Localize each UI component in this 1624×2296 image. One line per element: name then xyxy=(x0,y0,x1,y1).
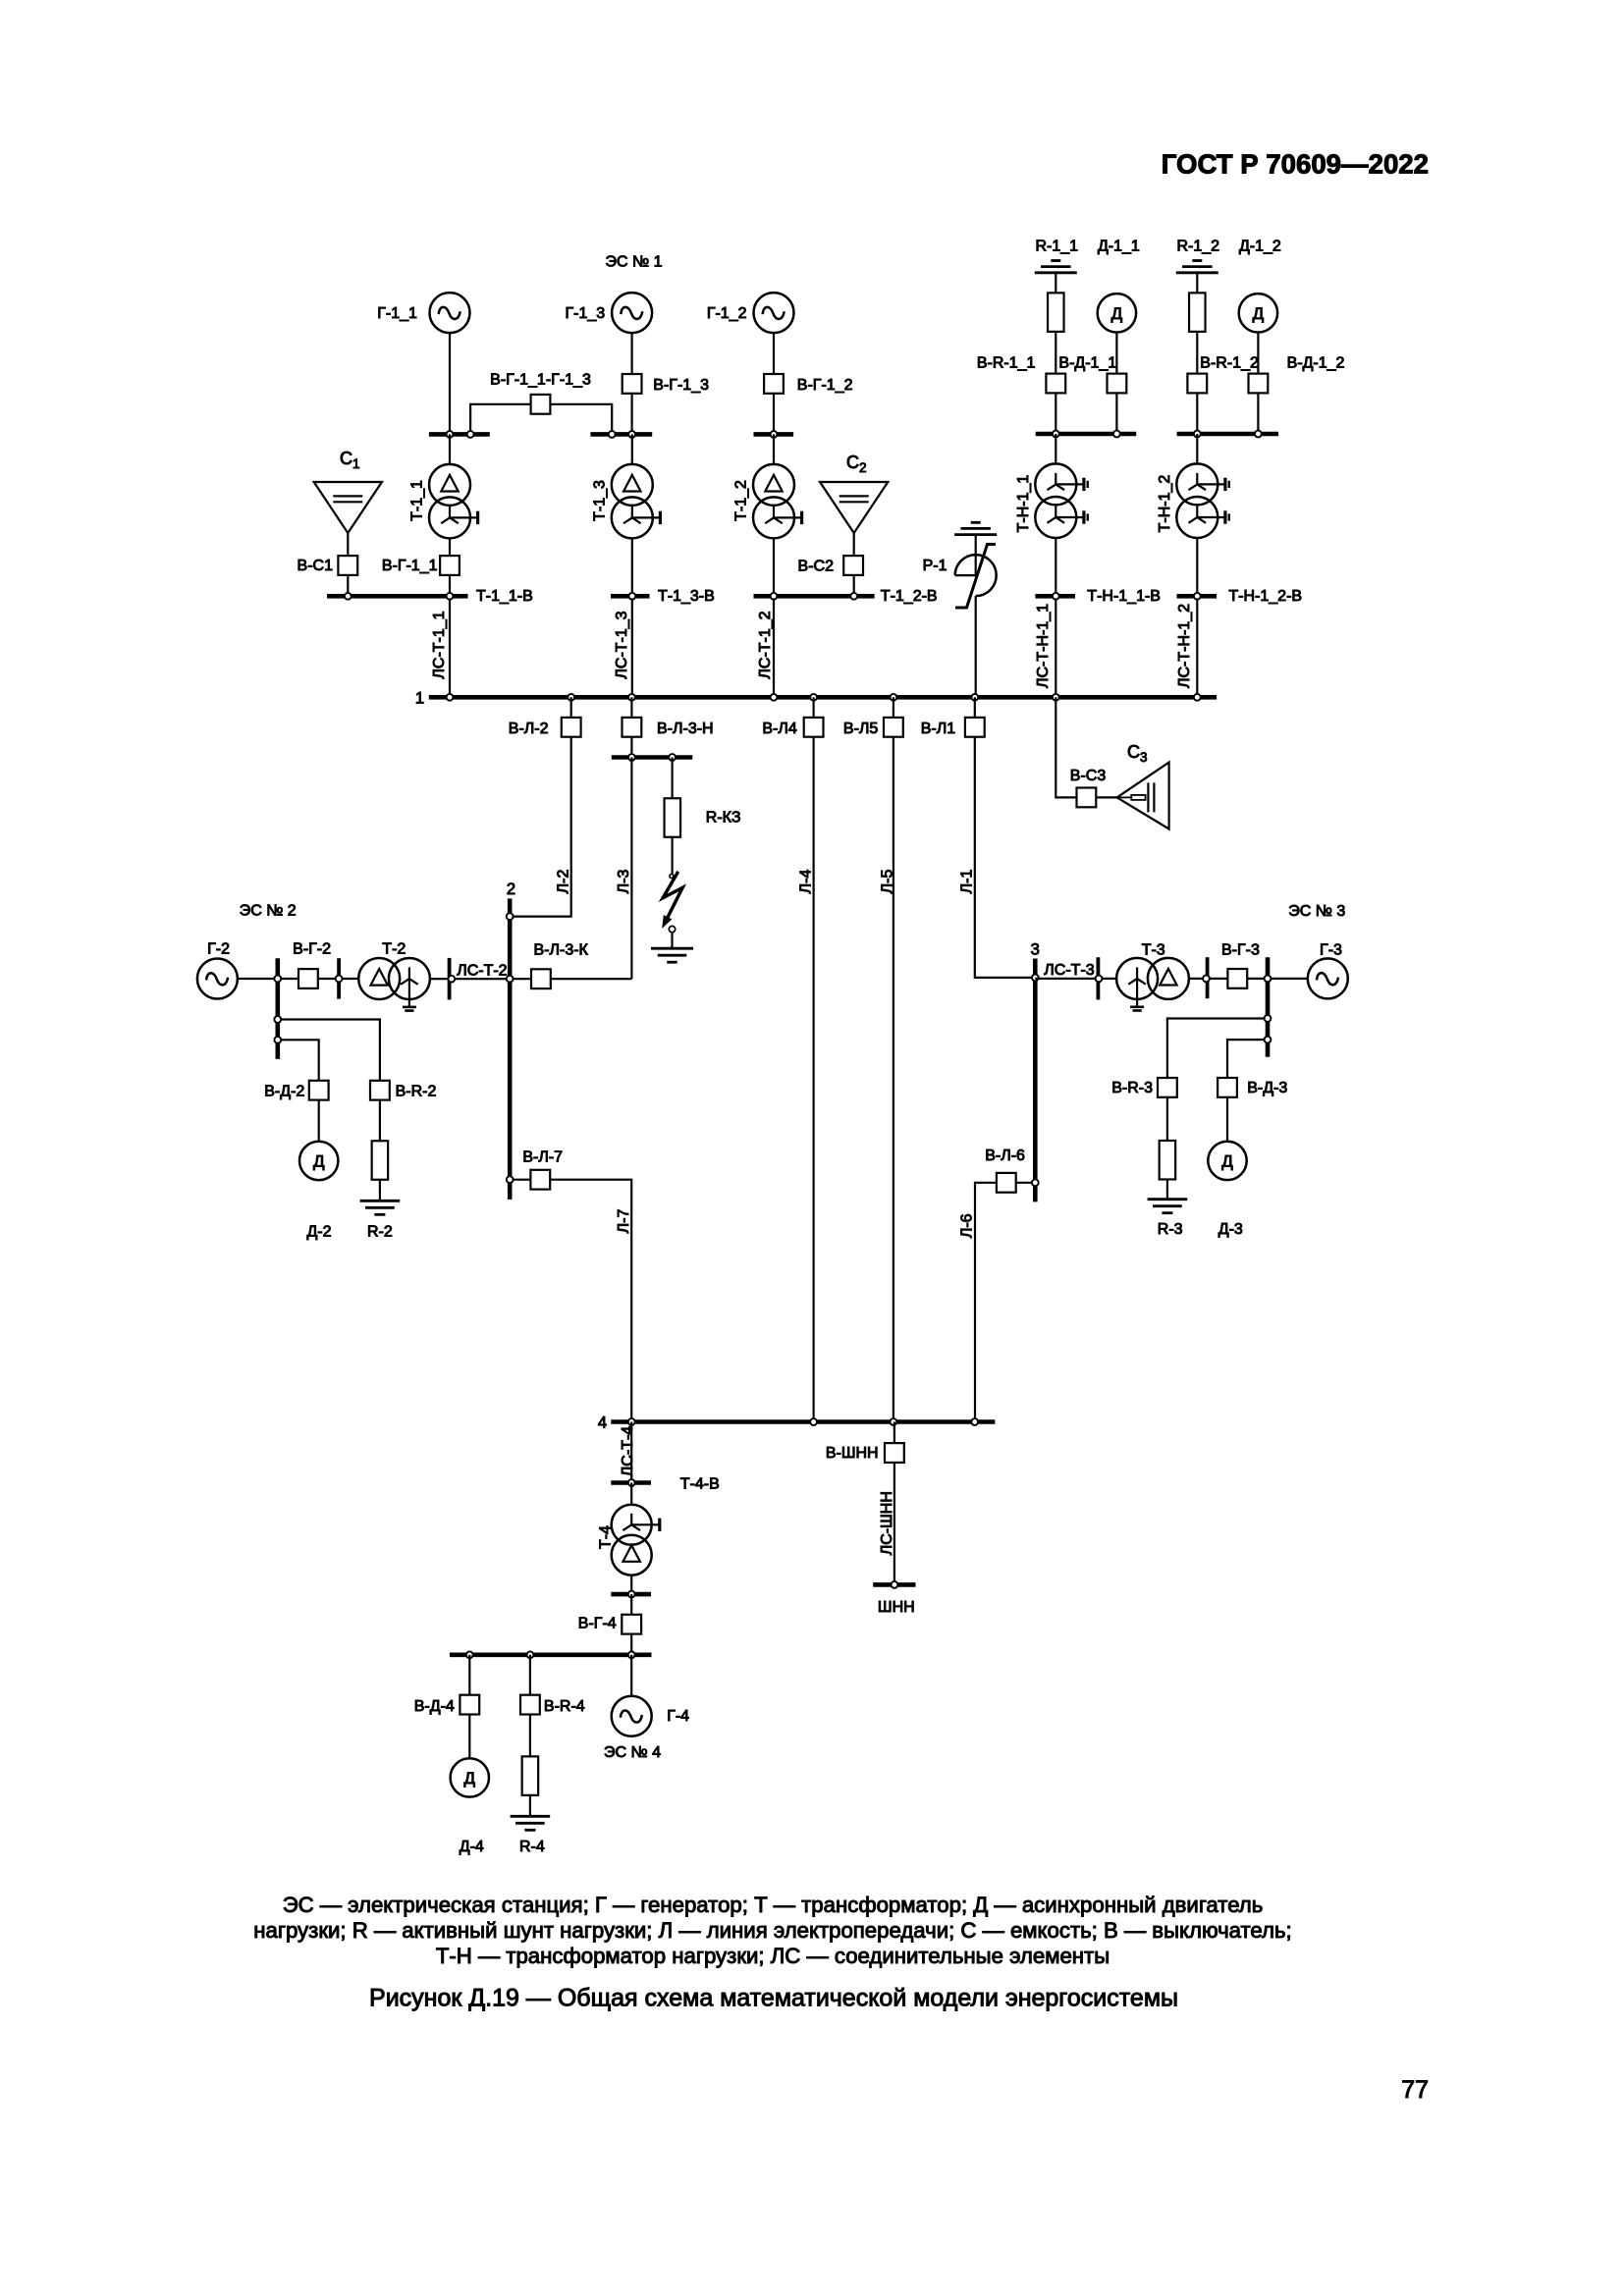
node Т-Н-1_2-В xyxy=(1194,593,1201,600)
ground of R-2 xyxy=(360,1200,401,1202)
svg-text:ЭС № 3: ЭС № 3 xyxy=(1288,903,1345,920)
node bus 1 xyxy=(971,694,978,701)
transformer Т-Н-1_1 xyxy=(1035,463,1076,505)
svg-text:В-Д-2: В-Д-2 xyxy=(264,1084,304,1100)
svg-text:Д-4: Д-4 xyxy=(460,1839,484,1855)
busbar under Г-1_1 xyxy=(429,432,490,437)
breaker В-С2 xyxy=(843,556,863,575)
svg-text:Г-1_2: Г-1_2 xyxy=(707,305,747,322)
wire Т-3 to Г-3 xyxy=(1189,978,1308,980)
breaker В-R-3 xyxy=(1158,1078,1177,1097)
svg-text:ЛС-Т-Н-1_1: ЛС-Т-Н-1_1 xyxy=(1035,604,1052,688)
wire В-R-2 to R-2 xyxy=(379,1100,381,1201)
wire R-КЗ branch xyxy=(671,758,673,875)
svg-text:Д-1_1: Д-1_1 xyxy=(1098,239,1140,255)
wire transformer Т-1_3 down xyxy=(631,538,633,594)
node Г-1_1 bus xyxy=(447,431,454,438)
wire ЛС-Т-4 xyxy=(630,1422,632,1483)
wire ЛС-Т-1_3 xyxy=(631,599,633,695)
breaker В-R-1_2 xyxy=(1187,374,1207,394)
svg-text:нагрузки; R — активный шунт на: нагрузки; R — активный шунт нагрузки; Л … xyxy=(253,1918,1291,1943)
svg-text:Т-Н-1_1: Т-Н-1_1 xyxy=(1015,475,1032,533)
wire transformer Т-1_2 down xyxy=(773,538,775,594)
resistor R-3 xyxy=(1160,1141,1176,1180)
lightning fault arrow xyxy=(663,872,682,920)
node bus 1 xyxy=(1194,694,1201,701)
svg-text:В-R-1_2: В-R-1_2 xyxy=(1200,355,1259,372)
svg-text:Л-5: Л-5 xyxy=(880,870,896,894)
svg-text:В-Л-7: В-Л-7 xyxy=(522,1148,563,1165)
wire ЛС-Т-2 xyxy=(430,978,632,980)
svg-text:Л-2: Л-2 xyxy=(556,870,572,894)
wire C2 to В-С2 xyxy=(853,533,855,594)
node ШНН xyxy=(892,1581,898,1588)
breaker В-Л-6 xyxy=(997,1173,1016,1193)
breaker В-Д-2 xyxy=(309,1081,329,1100)
node В-Л-7 on bus 2 xyxy=(507,1176,514,1183)
motor Д-1_1 xyxy=(1098,294,1136,332)
motor Д-4 xyxy=(451,1758,489,1796)
svg-text:В-Г-3: В-Г-3 xyxy=(1221,941,1260,958)
svg-text:В-R-4: В-R-4 xyxy=(544,1698,585,1715)
breaker В-ШНН xyxy=(885,1443,904,1463)
generator Г-1_2 xyxy=(754,293,794,333)
transformer Т-4 xyxy=(612,1505,652,1545)
svg-text:Д: Д xyxy=(1111,304,1123,323)
node load bus right xyxy=(1113,431,1120,438)
tie wire Г-1_1 to Г-1_3 xyxy=(470,404,612,432)
capacitor C1 xyxy=(314,482,382,533)
wire to В-R-3 xyxy=(1167,1019,1268,1078)
transformer Т-1_1 xyxy=(429,464,470,506)
svg-text:ЛС-Т-Н-1_2: ЛС-Т-Н-1_2 xyxy=(1176,604,1193,688)
wire Т-Н-1_1 down xyxy=(1055,538,1056,594)
terminal tick В-Г-3 left xyxy=(1206,957,1210,998)
wire to В-Д-4 xyxy=(468,1655,470,1694)
wire В-Д-3 to Д-3 xyxy=(1226,1097,1228,1141)
terminal tick ЛС-Т-3 xyxy=(1097,957,1101,999)
node Г-2 line xyxy=(274,976,281,983)
resistor R-1_2 xyxy=(1189,293,1206,332)
breaker В-Г-1_3 xyxy=(623,374,642,394)
svg-text:Д: Д xyxy=(1221,1152,1233,1171)
node branch R-3 xyxy=(1265,1015,1272,1022)
wire ЛС-Т-1_1 xyxy=(449,599,451,695)
svg-text:Т-Н — трансформатор нагрузки;: Т-Н — трансформатор нагрузки; ЛС — соеди… xyxy=(436,1944,1110,1968)
breaker В-Л5 xyxy=(884,718,903,737)
generator Г-1_1 xyxy=(430,293,470,333)
svg-text:В-Г-1_2: В-Г-1_2 xyxy=(797,377,853,394)
breaker В-Г-1_1 xyxy=(440,556,460,575)
svg-text:В-Г-1_1-Г-1_3: В-Г-1_1-Г-1_3 xyxy=(490,371,591,388)
wire R-1_2 column xyxy=(1196,273,1198,432)
svg-text:ЛС-ШНН: ЛС-ШНН xyxy=(879,1491,895,1555)
wire Г-1_1 to bus xyxy=(449,333,451,432)
svg-text:ЭС № 1: ЭС № 1 xyxy=(605,254,662,271)
node В-С2 on bus Т-1_2-В xyxy=(850,593,857,600)
svg-text:В-Г-1_1: В-Г-1_1 xyxy=(382,558,438,574)
busbar Т-Н-1_1-В xyxy=(1035,594,1075,599)
svg-text:R-1_2: R-1_2 xyxy=(1177,239,1220,255)
terminal bar ЭС2 xyxy=(275,958,280,1059)
node bus 4 xyxy=(971,1418,978,1425)
svg-text:Г-3: Г-3 xyxy=(1320,941,1342,958)
svg-text:В-R-1_1: В-R-1_1 xyxy=(977,355,1036,372)
reactor Р-1 diagonal xyxy=(955,545,996,609)
svg-text:Л-7: Л-7 xyxy=(616,1209,632,1234)
node fault point bottom xyxy=(669,926,675,932)
transformer Т-Н-1_2 xyxy=(1176,463,1218,505)
capacitor C2 xyxy=(820,482,888,533)
node Л-1 on bus 3 xyxy=(1032,975,1039,982)
wire Л-3 vertical xyxy=(630,758,632,980)
svg-text:В-ШНН: В-ШНН xyxy=(826,1445,879,1462)
breaker В-Д-4 xyxy=(460,1695,479,1715)
svg-text:В-С1: В-С1 xyxy=(298,558,334,574)
wire В-Л-3-Н down xyxy=(630,697,632,757)
svg-text:В-Л-2: В-Л-2 xyxy=(509,721,549,737)
motor Д-3 xyxy=(1208,1142,1246,1180)
breaker В-Л4 xyxy=(804,718,824,737)
wire В-Д-4 to Д-4 xyxy=(468,1715,470,1758)
generator Г-4 xyxy=(612,1696,652,1736)
node bus 1 xyxy=(1053,694,1059,701)
capacitor C3 xyxy=(1117,763,1169,829)
node bus 1 xyxy=(810,694,817,701)
node branch R-2 xyxy=(274,1016,281,1023)
wire Д-1_1 column xyxy=(1115,333,1117,433)
node branch Д-3 xyxy=(1265,1037,1272,1043)
svg-text:ЭС № 4: ЭС № 4 xyxy=(604,1744,661,1761)
svg-text:Л-1: Л-1 xyxy=(959,870,976,894)
breaker В-С3 xyxy=(1077,788,1097,808)
resistor R-1_1 xyxy=(1048,293,1064,332)
svg-text:В-Г-1_3: В-Г-1_3 xyxy=(653,377,709,394)
breaker В-R-4 xyxy=(520,1695,540,1715)
busbar Т-Н-1_2-В xyxy=(1177,594,1218,599)
svg-text:Д: Д xyxy=(1253,304,1265,323)
svg-text:ЭС — электрическая станция; Г: ЭС — электрическая станция; Г — генерато… xyxy=(283,1893,1264,1917)
svg-text:Т-2: Т-2 xyxy=(382,941,406,958)
node Л-2 on bus 2 xyxy=(507,913,514,920)
wire В-R-3 to R-3 xyxy=(1166,1097,1168,1199)
wire Л-5 xyxy=(893,697,894,1421)
breaker В-Г-4 xyxy=(622,1615,641,1634)
breaker В-Л-3-Н xyxy=(623,718,642,737)
node ЛС-Т-2 xyxy=(448,976,455,983)
node Т-4-В xyxy=(628,1479,635,1486)
node bus 1 xyxy=(771,694,778,701)
svg-text:Л-6: Л-6 xyxy=(959,1213,976,1238)
generator Г-2 xyxy=(197,959,238,999)
node bus 1 xyxy=(568,694,574,701)
svg-text:В-С2: В-С2 xyxy=(798,559,835,575)
busbar ШНН xyxy=(873,1582,915,1587)
wire Л-7 xyxy=(510,1180,631,1422)
svg-text:В-Л5: В-Л5 xyxy=(843,721,879,737)
node Т-1_3-В xyxy=(628,593,635,600)
wire ЛС-Т-3 xyxy=(1035,978,1116,980)
wire bus to Т-Н-1_1 xyxy=(1055,434,1056,464)
svg-text:Д-1_2: Д-1_2 xyxy=(1239,239,1281,255)
node load bus right xyxy=(1255,431,1262,438)
svg-text:2: 2 xyxy=(507,881,515,898)
wire Т-4 to ЭС4 bus xyxy=(630,1594,632,1655)
svg-text:В-Г-4: В-Г-4 xyxy=(578,1615,617,1631)
resistor R-КЗ xyxy=(665,798,681,837)
svg-text:Т-1_1-В: Т-1_1-В xyxy=(476,588,533,605)
svg-text:ГОСТ Р 70609—2022: ГОСТ Р 70609—2022 xyxy=(1162,149,1429,180)
reactor Р-1 arc xyxy=(955,555,997,596)
node bus 4 xyxy=(891,1418,897,1425)
wire to В-R-2 xyxy=(278,1020,380,1081)
wire Г-1_3 down xyxy=(630,333,632,432)
wire ЛС-Т-Н-1_2 xyxy=(1196,599,1198,695)
node Т-1_1-В xyxy=(447,593,454,600)
breaker В-Г-1_2 xyxy=(764,374,784,394)
svg-text:R-2: R-2 xyxy=(367,1224,393,1241)
wire fault to ground xyxy=(671,934,673,949)
ground of R-3 xyxy=(1148,1198,1188,1201)
wire Д-1_2 column xyxy=(1257,333,1259,433)
busbar load R-1_1 xyxy=(1036,432,1137,437)
node tick В-Г-2 xyxy=(336,976,343,983)
svg-text:В-Д-1_1: В-Д-1_1 xyxy=(1058,355,1116,372)
svg-text:В-Л-6: В-Л-6 xyxy=(985,1148,1025,1164)
node bus 1 xyxy=(891,694,897,701)
resistor R-2 xyxy=(372,1141,389,1180)
breaker В-Д-1_2 xyxy=(1249,374,1269,394)
svg-text:ЛС-Т-4: ЛС-Т-4 xyxy=(620,1426,636,1476)
node tick В-Г-3 xyxy=(1203,976,1210,983)
wire Г-1_2 down xyxy=(773,333,775,432)
node load bus left xyxy=(1053,431,1059,438)
wire bus to transformer Т-1_2 xyxy=(773,434,775,464)
busbar under Г-1_3 xyxy=(590,432,652,437)
wire to В-R-4 xyxy=(529,1655,531,1694)
wire C1 to В-С1 xyxy=(347,533,349,594)
node bus 4 xyxy=(810,1418,817,1425)
svg-text:Г-1_3: Г-1_3 xyxy=(566,305,606,322)
breaker В-С1 xyxy=(338,556,357,575)
transformer Т-1_3 xyxy=(612,464,653,506)
svg-text:ШНН: ШНН xyxy=(878,1599,915,1616)
svg-text:В-Д-4: В-Д-4 xyxy=(414,1698,455,1715)
svg-text:В-Л-3-К: В-Л-3-К xyxy=(534,941,589,958)
wire bus to transformer Т-1_3 xyxy=(631,434,633,464)
inverted ground above R-1_2 xyxy=(1192,259,1202,262)
wire В-Д-2 to Д-2 xyxy=(318,1100,320,1142)
wire Т-4-В to Т-4 xyxy=(630,1483,632,1505)
svg-text:Т-4-В: Т-4-В xyxy=(680,1475,720,1492)
node fault point top xyxy=(670,875,674,879)
wire ЛС-Т-1_2 xyxy=(773,599,775,695)
svg-text:Т-1_3-В: Т-1_3-В xyxy=(658,588,715,605)
svg-text:Т-1_3: Т-1_3 xyxy=(592,480,609,521)
terminal tick В-Г-2 xyxy=(337,958,341,998)
inverted ground above R-1_1 xyxy=(1051,259,1060,262)
svg-text:ЛС-Т-1_1: ЛС-Т-1_1 xyxy=(431,611,448,678)
svg-text:77: 77 xyxy=(1401,2076,1429,2104)
breaker В-Л-2 xyxy=(562,718,581,737)
breaker В-Л-3-К xyxy=(531,969,551,988)
bus 1 xyxy=(429,695,1217,700)
node В-С1 on bus Т-1_1-В xyxy=(345,593,352,600)
svg-text:ЛС-Т-2: ЛС-Т-2 xyxy=(457,963,507,980)
ground of fault xyxy=(651,947,693,950)
busbar under Г-1_2 xyxy=(754,432,794,437)
node ЭС4 bus Г-4 xyxy=(628,1651,635,1658)
svg-text:В-Г-2: В-Г-2 xyxy=(293,941,331,958)
wire В-R-4 to R-4 xyxy=(529,1715,531,1816)
node В-Л-6 on bus 3 xyxy=(1032,1179,1039,1186)
terminal tick ЛС-Т-2 xyxy=(448,958,452,1000)
svg-text:ЛС-Т-1_3: ЛС-Т-1_3 xyxy=(614,611,630,678)
node Т-1_2-В xyxy=(771,593,778,600)
wire to В-С3 xyxy=(1056,697,1116,797)
svg-text:Р-1: Р-1 xyxy=(923,558,947,574)
svg-text:Л-3: Л-3 xyxy=(616,870,632,894)
node Л-3 tap right xyxy=(669,754,676,761)
breaker В-Д-3 xyxy=(1218,1078,1237,1097)
svg-text:Д-2: Д-2 xyxy=(306,1224,331,1241)
wire Л-1 xyxy=(975,697,1036,978)
svg-text:В-Л1: В-Л1 xyxy=(921,721,956,737)
svg-text:4: 4 xyxy=(598,1415,607,1432)
wire В-ШНН down xyxy=(893,1422,895,1585)
busbar Т-1_2-В xyxy=(754,594,875,599)
node load bus left xyxy=(1194,431,1201,438)
svg-text:R-КЗ: R-КЗ xyxy=(706,810,741,827)
generator Г-3 xyxy=(1308,958,1348,998)
node bus 1 xyxy=(628,694,635,701)
node branch Д-2 xyxy=(274,1037,281,1043)
node tie right xyxy=(609,431,616,438)
busbar ЭС4 xyxy=(450,1653,652,1658)
wire Т-4 down xyxy=(630,1575,632,1594)
breaker В-Л1 xyxy=(965,718,985,737)
svg-text:Т-1_1: Т-1_1 xyxy=(409,480,426,521)
node ЛС-Т-3 xyxy=(1096,976,1103,983)
wire Л-6 xyxy=(975,1183,1035,1422)
svg-text:Л-4: Л-4 xyxy=(798,870,815,894)
svg-text:ЭС № 2: ЭС № 2 xyxy=(240,902,297,919)
breaker В-Л-7 xyxy=(530,1170,550,1190)
svg-text:Т-1_2-В: Т-1_2-В xyxy=(881,588,938,605)
node tie left xyxy=(467,431,474,438)
bus 3 xyxy=(1033,959,1038,1202)
resistor R-4 xyxy=(522,1756,539,1795)
svg-text:В-R-3: В-R-3 xyxy=(1111,1080,1153,1096)
svg-text:Д: Д xyxy=(464,1769,476,1788)
wire Т-Н-1_2 down xyxy=(1196,538,1198,594)
wire to Г-4 xyxy=(630,1655,632,1696)
wire to В-Д-3 xyxy=(1227,1040,1268,1077)
busbar Л-3 tap xyxy=(612,755,693,760)
svg-text:1: 1 xyxy=(415,689,424,707)
svg-text:Г-2: Г-2 xyxy=(207,941,230,958)
transformer Т-3 xyxy=(1116,958,1158,999)
node ЭС4 bus Д-4 xyxy=(466,1651,473,1658)
node Г-1_3 bus xyxy=(628,431,635,438)
svg-text:Рисунок Д.19 — Общая схема мат: Рисунок Д.19 — Общая схема математическо… xyxy=(369,1985,1178,2012)
svg-text:ЛС-Т-1_2: ЛС-Т-1_2 xyxy=(757,611,774,678)
busbar Т-1_1-В xyxy=(327,594,468,599)
busbar Т-4-В xyxy=(611,1480,651,1485)
ground of R-4 xyxy=(511,1815,551,1818)
wire bus to Т-Н-1_2 xyxy=(1196,434,1198,464)
svg-text:В-Д-1_2: В-Д-1_2 xyxy=(1287,355,1345,372)
svg-text:ЛС-Т-3: ЛС-Т-3 xyxy=(1044,962,1094,979)
node bus 1 xyxy=(447,694,454,701)
svg-text:Т-1_2: Т-1_2 xyxy=(733,480,750,521)
wire to В-Д-2 xyxy=(278,1040,319,1080)
breaker В-Г-2 xyxy=(298,969,318,988)
svg-text:В-Л4: В-Л4 xyxy=(762,721,797,737)
svg-text:Г-4: Г-4 xyxy=(667,1708,689,1725)
svg-text:Т-3: Т-3 xyxy=(1142,941,1165,958)
breaker В-R-2 xyxy=(370,1081,390,1100)
busbar Т-1_3-В xyxy=(611,594,650,599)
svg-text:Т-Н-1_1-В: Т-Н-1_1-В xyxy=(1087,588,1161,605)
svg-text:Т-4: Т-4 xyxy=(598,1525,615,1549)
inverted ground of Р-1 xyxy=(971,521,981,524)
wire R-1_1 column xyxy=(1055,273,1056,432)
node bus 4 xyxy=(628,1418,635,1425)
busbar load R-1_2 xyxy=(1177,432,1279,437)
svg-text:Д-3: Д-3 xyxy=(1218,1221,1243,1238)
wire Г-2 to Т-2 xyxy=(238,978,358,980)
node ЛС-Т-2 on bus 2 xyxy=(507,976,514,983)
motor Д-1_2 xyxy=(1239,294,1277,332)
node Т-Н-1_1-В xyxy=(1053,593,1059,600)
svg-text:R-4: R-4 xyxy=(519,1839,545,1855)
breaker В-Г-3 xyxy=(1227,969,1247,988)
transformer Т-2 xyxy=(358,958,400,999)
wire Л-4 xyxy=(812,697,814,1421)
busbar under Т-4 xyxy=(611,1592,651,1597)
svg-text:Г-1_1: Г-1_1 xyxy=(377,305,417,322)
node Г-3 line xyxy=(1265,976,1272,983)
wire transformer Т-1_1 down xyxy=(449,538,451,594)
node ЭС4 bus R-4 xyxy=(527,1651,534,1658)
node Л-3 tap left xyxy=(628,754,635,761)
svg-text:Т-Н-1_2-В: Т-Н-1_2-В xyxy=(1228,588,1302,605)
wire Л-2 xyxy=(510,697,571,916)
motor Д-2 xyxy=(299,1142,338,1180)
svg-text:В-Л-3-Н: В-Л-3-Н xyxy=(657,721,714,737)
svg-text:R-3: R-3 xyxy=(1158,1221,1183,1238)
terminal bar ЭС3 xyxy=(1266,957,1271,1056)
wire reactor to bus 1 xyxy=(975,596,977,695)
node under Т-4 xyxy=(628,1591,635,1598)
breaker В-Г-1_1-Г-1_3 xyxy=(531,395,551,414)
svg-text:Д: Д xyxy=(313,1152,325,1171)
wire bus to transformer Т-1_1 xyxy=(449,434,451,464)
svg-text:В-С3: В-С3 xyxy=(1070,768,1107,784)
breaker В-Д-1_1 xyxy=(1108,374,1127,394)
transformer Т-1_2 xyxy=(753,464,794,506)
svg-text:3: 3 xyxy=(1031,940,1040,958)
generator Г-1_3 xyxy=(612,293,652,333)
wire ground to reactor xyxy=(975,535,977,576)
node Г-1_2 bus xyxy=(771,431,778,438)
svg-text:R-1_1: R-1_1 xyxy=(1036,239,1079,255)
bus 2 xyxy=(508,898,513,1200)
wire ЛС-Т-Н-1_1 xyxy=(1055,599,1056,695)
svg-text:В-R-2: В-R-2 xyxy=(396,1084,437,1100)
svg-text:В-Д-3: В-Д-3 xyxy=(1247,1080,1287,1096)
